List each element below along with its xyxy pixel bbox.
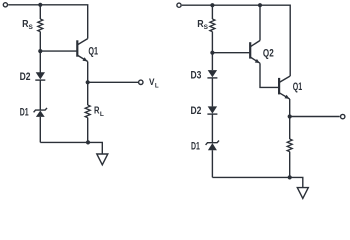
wire R_L bottom to bottom rail (left) <box>87 118 89 143</box>
node junction dot base node (left) <box>38 49 42 53</box>
svg-text:D2: D2 <box>191 105 202 117</box>
terminal input (left circuit) <box>3 3 7 7</box>
svg-text:L: L <box>100 111 104 118</box>
node junction dot Q2 collector rail (right) <box>258 3 262 7</box>
svg-text:Q2: Q2 <box>263 47 274 59</box>
wire Q1 emitter to output node (right) <box>289 99 291 117</box>
wire load resistor to bottom rail (right) <box>289 152 291 178</box>
wire top rail left circuit <box>8 5 88 39</box>
wire bottom rail (left) <box>40 142 102 154</box>
wire R_S top lead (right) <box>211 5 213 19</box>
ground (right) <box>297 188 308 199</box>
zener diode D1 (left) <box>34 108 47 117</box>
diode D2 (right) <box>207 106 217 114</box>
svg-text:S: S <box>204 24 209 31</box>
transistor Q1 (left) <box>77 39 87 62</box>
wire R_S top lead (left) <box>39 5 41 19</box>
wire node to diode D2 (left) <box>39 51 41 72</box>
node junction dot emitter node (left) <box>86 80 90 84</box>
transistor Q2 (right) <box>250 41 260 64</box>
terminal input (right circuit) <box>177 3 181 7</box>
node junction dot bottom rail (right) <box>288 175 292 179</box>
node junction dot bottom rail (left) <box>86 140 90 144</box>
resistor R_S (left) <box>38 19 43 32</box>
terminal V_L (left) <box>139 80 143 84</box>
node junction dot base node (right) <box>210 51 214 55</box>
wire Q2 collector vertical (right) <box>259 5 261 40</box>
resistor load (right, unlabelled) <box>287 139 292 152</box>
wire Q1 emitter to output node (left) <box>87 62 89 83</box>
svg-text:D1: D1 <box>20 107 29 119</box>
resistor R_S (right) <box>210 19 215 32</box>
wire D2 to D1 (right) <box>211 114 213 143</box>
wire base node to Q2 base (right) <box>212 52 249 54</box>
wire output node to V_L terminal (left) <box>88 81 138 83</box>
wire top rail right circuit <box>182 5 290 76</box>
wire node to diode D3 (right) <box>211 53 213 70</box>
zener diode D1 (right) <box>206 141 219 151</box>
svg-text:D3: D3 <box>191 69 202 81</box>
wire D3 to D2 (right) <box>211 78 213 107</box>
wire output node to terminal (right) <box>290 116 340 118</box>
wire R_S bottom to base node (right) <box>211 32 213 53</box>
node junction dot R_S top (right) <box>210 3 214 7</box>
wire output node to R_L (left) <box>87 82 89 105</box>
diode D3 (right) <box>207 70 217 78</box>
svg-text:D2: D2 <box>20 71 31 83</box>
svg-text:Q1: Q1 <box>293 81 302 93</box>
node junction dot output node (right) <box>288 114 292 118</box>
wire D1 to bottom rail (right) <box>211 150 213 177</box>
wire D1 to bottom rail (left) <box>39 117 41 142</box>
svg-text:S: S <box>29 24 34 31</box>
wire R_S bottom lead to base node (left) <box>39 32 41 51</box>
ground (left) <box>97 154 108 165</box>
terminal output (right) <box>341 114 345 118</box>
wire D2 to D1 (left) <box>39 80 41 110</box>
transistor Q1 (right) <box>279 76 290 99</box>
resistor R_L (left) <box>85 105 90 118</box>
svg-text:L: L <box>155 83 159 90</box>
wire bottom rail (right) <box>212 177 302 187</box>
svg-text:D1: D1 <box>191 141 200 153</box>
wire base node to Q1 base (left) <box>40 50 76 52</box>
wire output node to load resistor (right) <box>289 117 291 140</box>
diode D2 (left) <box>35 72 45 80</box>
node junction dot at R_S top (left) <box>38 3 42 7</box>
wire Q2 emitter to Q1 base (right) <box>260 63 278 87</box>
svg-text:Q1: Q1 <box>88 46 98 58</box>
